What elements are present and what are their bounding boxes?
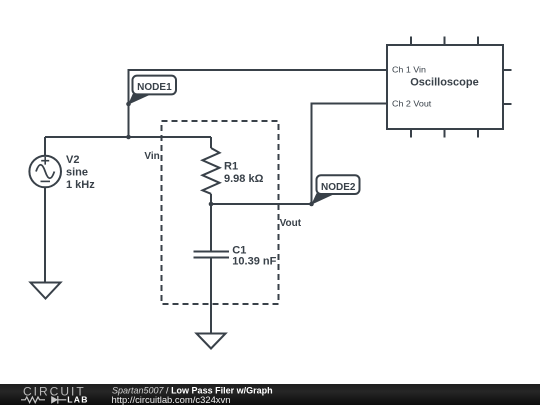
svg-text:V2: V2: [66, 154, 79, 166]
svg-text:9.98 kΩ: 9.98 kΩ: [224, 173, 264, 185]
svg-text:1 kHz: 1 kHz: [66, 179, 95, 191]
svg-text:Oscilloscope: Oscilloscope: [410, 76, 478, 88]
svg-text:R1: R1: [224, 161, 238, 173]
svg-text:http://circuitlab.com/c324xvn: http://circuitlab.com/c324xvn: [112, 395, 231, 405]
svg-text:Ch 1 Vin: Ch 1 Vin: [392, 65, 426, 74]
svg-text:NODE1: NODE1: [137, 82, 172, 93]
svg-text:NODE2: NODE2: [321, 182, 356, 193]
svg-text:Vout: Vout: [280, 218, 302, 229]
svg-text:Ch 2 Vout: Ch 2 Vout: [392, 99, 432, 108]
svg-text:C1: C1: [232, 244, 246, 256]
svg-text:Vin: Vin: [144, 151, 159, 162]
svg-text:10.39 nF: 10.39 nF: [232, 256, 276, 268]
svg-text:LAB: LAB: [67, 395, 89, 405]
svg-text:sine: sine: [66, 167, 88, 179]
